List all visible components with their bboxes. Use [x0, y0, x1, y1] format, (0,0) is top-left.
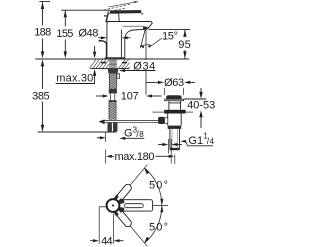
spout aerator: [143, 27, 148, 29]
drain flange extension lines: [164, 88, 166, 95]
drain: body: [168, 114, 182, 126]
bottom view: pull rod stub: [99, 206, 106, 208]
drain: ball joint knob: [158, 117, 165, 124]
threaded shank below deck: [109, 59, 117, 69]
svg-text:385: 385: [32, 91, 50, 103]
faucet: lever handle (dark): [110, 10, 141, 13]
upper braided hose: [109, 74, 116, 94]
svg-text:155: 155: [56, 28, 73, 40]
dimension max.180: [106, 133, 175, 165]
svg-text:Ø48: Ø48: [78, 28, 98, 40]
drain: flange cap dark: [166, 95, 181, 99]
basin surface lines: [153, 111, 165, 113]
svg-text:40-53: 40-53: [187, 99, 215, 111]
bottom view: lower swung lever: [113, 206, 134, 228]
svg-text:G1: G1: [188, 135, 203, 147]
svg-text:15°: 15°: [162, 30, 178, 42]
bottom view: swing arcs 50deg: [144, 168, 163, 243]
faucet base dark band: [105, 57, 125, 59]
pop-up pull rod: [99, 40, 107, 58]
385 bottom tick line: [38, 131, 116, 133]
bottom view: upper swung lever: [113, 182, 134, 204]
drain: tailpipe: [170, 129, 180, 148]
water stream line 15deg: [140, 29, 145, 49]
drain: neck: [169, 101, 181, 110]
pop-up linkage horizontal rod: [104, 121, 158, 123]
svg-text:50°: 50°: [149, 222, 168, 234]
text G1 1/4 underlined with leader: [188, 131, 214, 147]
deck shadow dashes near shank: [101, 62, 127, 64]
text G3/8 underlined with arrow: [124, 125, 144, 139]
faucet: cartridge housing under lever: [106, 13, 119, 22]
bottom view: upper lever axis line: [113, 165, 147, 206]
spout tip vertical reference line: [145, 29, 147, 95]
dimension 385 vertical line: [38, 59, 116, 132]
hose inner lines across dimension gap: [110, 94, 112, 101]
spout inner top line: [123, 25, 146, 27]
dimension 40-53: [184, 88, 206, 128]
svg-text:Ø63: Ø63: [164, 77, 184, 89]
drain: tailpipe end dark band: [170, 148, 180, 150]
dimension 107 arrows: [96, 94, 161, 97]
countertop bottom line: [90, 67, 129, 69]
lever lift direction arrow: [109, 1, 139, 7]
svg-text:max.30: max.30: [56, 73, 93, 85]
155 extension line: [61, 9, 110, 11]
lever pivot nub: [104, 15, 107, 17]
faucet: raised lever dashed outline: [104, 4, 132, 12]
countertop line: [35, 58, 189, 60]
max.30 bottom arrow and leader: [93, 69, 96, 83]
faucet: body and spout outline: [107, 22, 152, 59]
mounting nut: [108, 68, 119, 73]
svg-text:8: 8: [139, 130, 144, 139]
drain: Ø63 dimension: [146, 81, 195, 84]
svg-text:4: 4: [210, 137, 215, 146]
95 extension line (spout outlet level): [149, 28, 191, 30]
bottom view: axis line: [113, 205, 168, 207]
dimension 95 vertical line: [149, 29, 191, 58]
svg-text:107: 107: [121, 90, 139, 102]
drain: rubber gasket dark: [164, 110, 185, 114]
svg-text:95: 95: [178, 39, 191, 51]
spout underside arch: [125, 29, 147, 58]
linkage left end clamp: [98, 119, 104, 124]
arrow pointing at hose-end reference line: [97, 136, 106, 139]
svg-text:max.180: max.180: [115, 151, 155, 163]
bottom view: lever horizontal: [118, 200, 153, 211]
svg-text:50°: 50°: [149, 180, 168, 192]
max.30 top arrow: [93, 46, 96, 59]
15deg arc with arrows: [140, 38, 161, 48]
countertop hatching: [90, 59, 130, 68]
lower braided hose: [109, 100, 116, 120]
svg-text:44: 44: [101, 235, 113, 247]
dimension Ø48 arrows: [98, 36, 130, 39]
drain: flange plate: [165, 99, 184, 101]
small dimension at pipe bottom left: [158, 139, 182, 164]
dimension 44: [90, 207, 123, 244]
dimension 188 vertical line: [39, 2, 50, 59]
pop-up rod knob below deck: [117, 74, 120, 78]
bottom view: lower lever axis line: [113, 206, 147, 247]
svg-text:188: 188: [34, 27, 51, 39]
bottom view: body circle: [107, 199, 120, 212]
hose end connectors G3/8: [108, 123, 112, 132]
drain: clamp nut dark: [168, 126, 182, 129]
text Ø34 underlined with leader arrow: [133, 60, 157, 70]
dimension 155 vertical line: [61, 10, 110, 58]
